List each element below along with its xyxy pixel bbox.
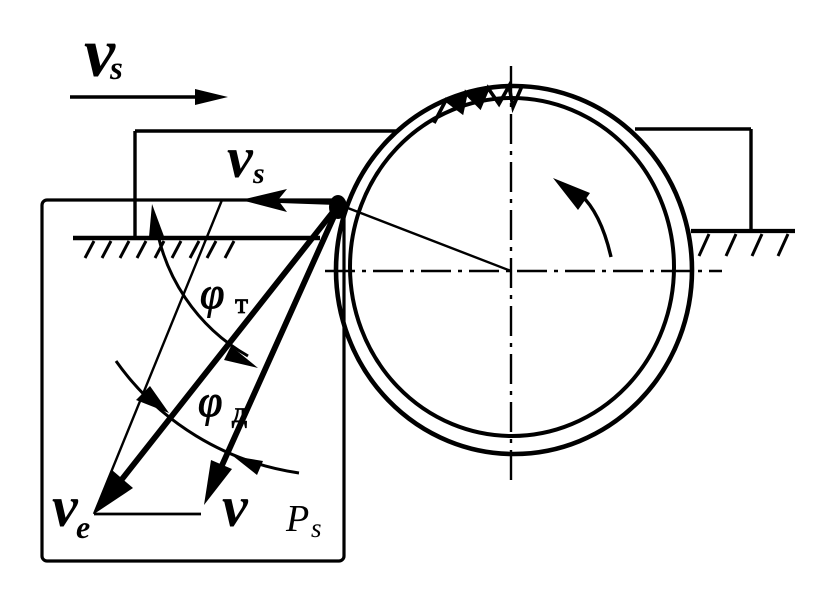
ground line left <box>73 236 320 240</box>
svg-text:т: т <box>235 287 248 320</box>
ground line right <box>691 229 795 233</box>
radius line from contact point to wheel center <box>340 205 511 271</box>
plane box P_s <box>42 200 344 561</box>
label v_s at contact <box>227 125 265 190</box>
contact point ink blob <box>329 195 347 219</box>
ground hatching right <box>699 234 788 256</box>
rotation arrow head <box>553 178 590 210</box>
label v_e <box>52 474 90 545</box>
svg-text:v: v <box>227 125 254 190</box>
vector v_e arrow head <box>94 470 133 514</box>
grinding wheel outer rim <box>336 86 692 454</box>
vector v_s arrow head <box>241 189 287 212</box>
vertical center line <box>510 66 512 480</box>
svg-text:v: v <box>52 474 79 539</box>
angle arc phi_T lower arrow head <box>224 346 258 368</box>
svg-text:φ: φ <box>200 269 224 318</box>
vector v (wheel speed) <box>219 203 340 472</box>
label P_s <box>285 498 322 543</box>
label v_s (legend) <box>84 15 123 92</box>
horizontal center line <box>325 270 722 272</box>
svg-text:s: s <box>252 157 265 190</box>
workpiece rectangle top edge left <box>135 129 397 133</box>
grinding wheel inner rim <box>350 98 674 436</box>
svg-text:v: v <box>222 474 249 539</box>
angle arc phi_d <box>116 361 299 473</box>
svg-text:s: s <box>109 51 123 87</box>
vector v_s at contact point <box>255 200 340 203</box>
label v <box>222 474 249 539</box>
parallelogram side from v_s tip to v_e tip <box>94 200 222 514</box>
svg-text:e: e <box>76 509 90 545</box>
vector v arrow head <box>204 460 232 505</box>
feed velocity arrow v_s (legend, top-left) <box>70 95 206 98</box>
label phi_T <box>200 269 248 320</box>
parallelogram bottom side <box>94 513 201 516</box>
wheel serrations <box>434 86 522 123</box>
feed velocity arrow head <box>195 89 228 105</box>
svg-text:s: s <box>311 513 322 543</box>
workpiece rectangle left edge <box>133 131 136 239</box>
angle arc phi_T <box>155 218 248 356</box>
workpiece rectangle right edge <box>749 129 752 231</box>
svg-text:φ: φ <box>198 377 222 426</box>
vector v_e (resultant) <box>115 203 340 488</box>
angle arc phi_d right arrow head <box>233 456 263 475</box>
label phi_d <box>198 377 247 429</box>
wheel serration filled tooth 2 <box>466 88 488 107</box>
rotation arrow <box>580 194 611 257</box>
angle arc phi_T upper arrow head <box>149 204 165 239</box>
angle arc phi_d left arrow head <box>136 386 169 413</box>
wheel serration filled tooth 1 <box>446 93 466 112</box>
svg-text:д: д <box>232 396 247 429</box>
workpiece rectangle top edge right <box>635 127 751 131</box>
svg-text:P: P <box>285 498 309 540</box>
ground hatching left <box>85 241 234 258</box>
